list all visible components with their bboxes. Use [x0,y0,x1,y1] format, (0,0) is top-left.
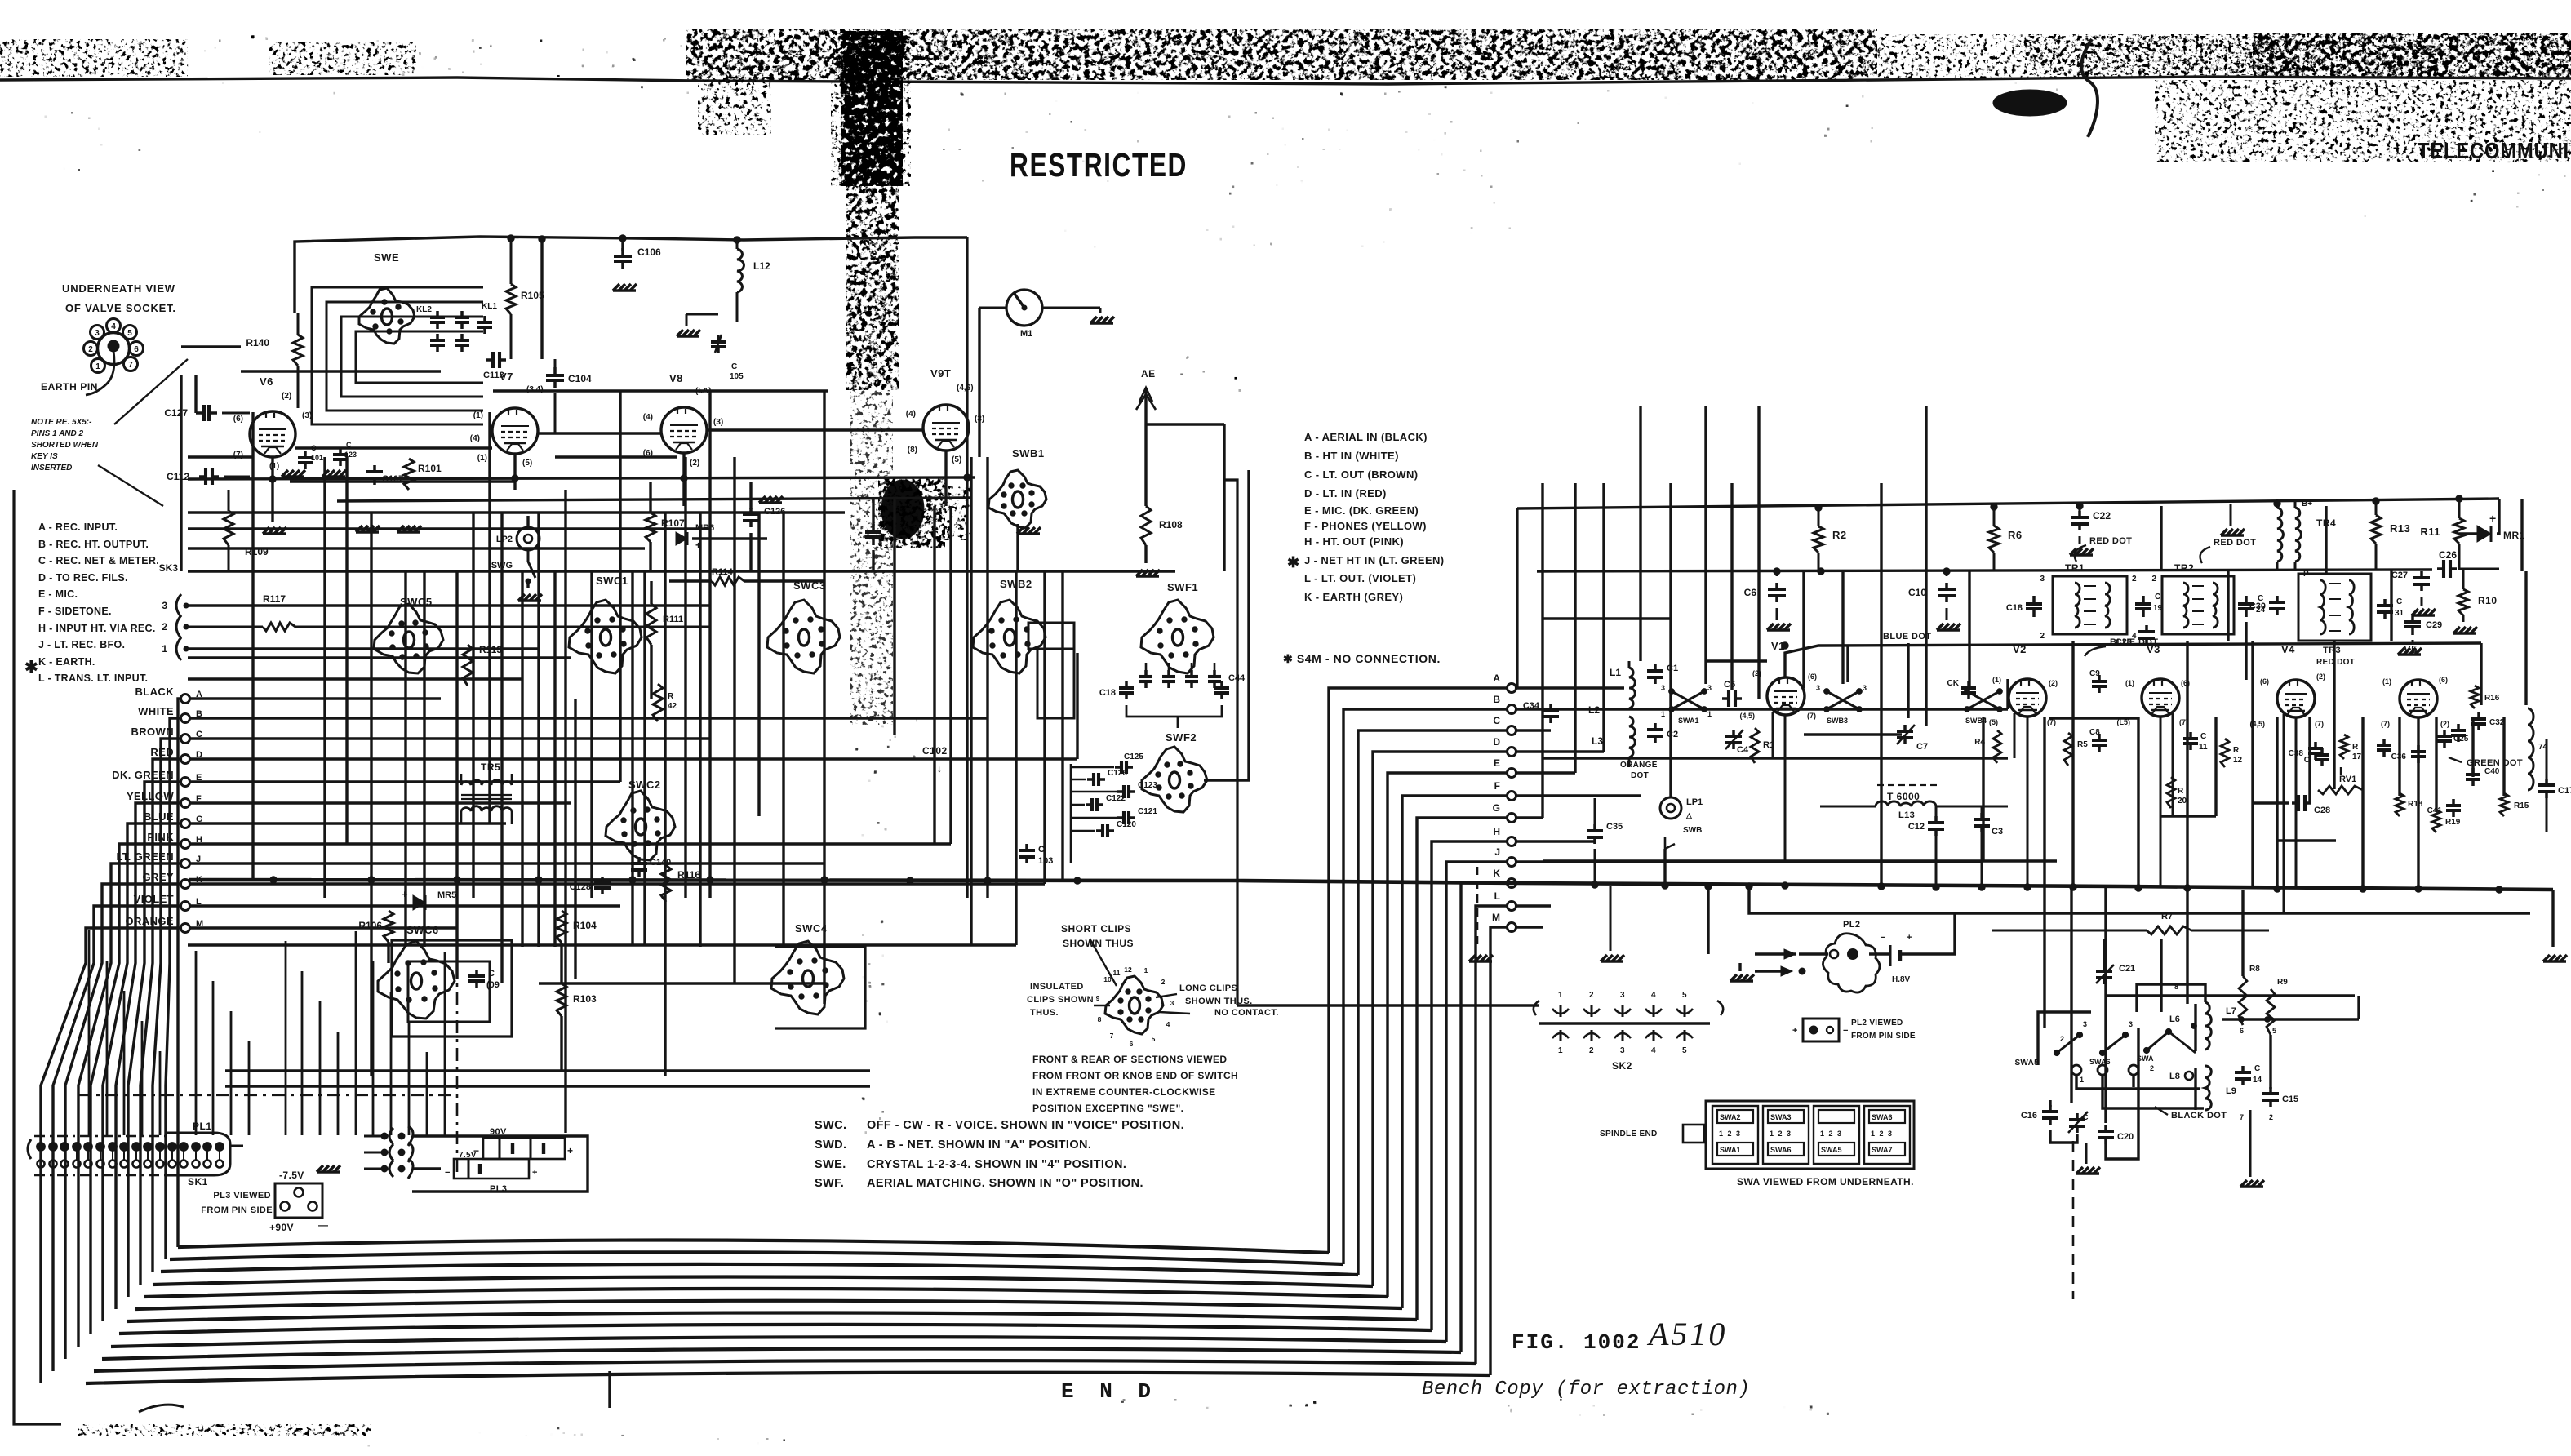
lamp LP2 [517,527,540,550]
right boundary of left block [966,237,968,710]
svg-text:C3: C3 [1992,827,2003,837]
svg-text:+: + [2489,512,2496,525]
svg-text:(1): (1) [477,454,487,463]
verticals left block mesh [455,571,458,979]
svg-text:C: C [2254,1064,2260,1073]
svg-text:−: − [1843,1026,1848,1036]
svg-text:SWA7: SWA7 [1872,1146,1893,1154]
svg-text:C112: C112 [167,471,189,482]
svg-text:B - HT IN (WHITE): B - HT IN (WHITE) [1304,450,1399,462]
svg-text:C32: C32 [2489,718,2505,727]
svg-text:BLUE DOT: BLUE DOT [2110,637,2158,647]
ground swa [2076,1167,2083,1174]
bottom nested bus wires [178,1240,1329,1253]
svg-text:C - REC. NET & METER.: C - REC. NET & METER. [38,555,159,566]
svg-text:C: C [311,444,317,452]
svg-text:TR1: TR1 [2065,562,2085,574]
svg-text:TR5: TR5 [481,761,500,773]
svg-text:C10: C10 [1908,587,1926,598]
svg-text:TR2: TR2 [2174,562,2194,574]
svg-text:C38: C38 [2289,749,2304,758]
svg-text:1: 1 [1558,1046,1563,1055]
loops around SWC4 [775,947,865,1028]
svg-text:CRYSTAL 1-2-3-4. SHOWN IN "4": CRYSTAL 1-2-3-4. SHOWN IN "4" POSITION. [867,1158,1126,1171]
svg-text:(09: (09 [486,980,500,990]
svg-text:E - MIC.: E - MIC. [38,588,78,600]
svg-text:8: 8 [2174,983,2178,991]
svg-text:R: R [2178,787,2184,796]
svg-text:R113: R113 [479,644,502,655]
svg-text:C: C [1038,845,1045,855]
svg-text:SWC6: SWC6 [406,924,439,936]
svg-text:−: − [445,1168,450,1178]
svg-text:FRONT & REAR OF SECTIONS VIEWE: FRONT & REAR OF SECTIONS VIEWED [1032,1054,1227,1065]
svg-text:105: 105 [730,372,744,381]
scan noise centre speckle [694,85,1877,150]
svg-text:C122: C122 [1106,794,1126,803]
svg-text:BROWN: BROWN [131,726,174,738]
svg-text:V9T: V9T [930,367,951,380]
svg-text:SWF1: SWF1 [1167,581,1198,593]
capacitor C7 variable [1903,725,1907,731]
svg-text:2: 2 [88,345,93,354]
dash-dot chassis horizontal [78,1094,457,1096]
svg-text:EARTH PIN: EARTH PIN [41,381,98,393]
svg-text:R117: R117 [263,593,286,605]
svg-text:R2: R2 [1832,529,1847,541]
svg-text:THUS.: THUS. [1030,1008,1059,1018]
svg-text:5: 5 [1152,1035,1156,1043]
svg-text:C: C [2200,732,2206,741]
svg-text:74: 74 [2538,743,2548,752]
svg-text:R: R [2233,746,2240,755]
capacitor C16 [2049,1105,2052,1112]
svg-text:(4,5): (4,5) [1739,712,1755,720]
svg-text:SWC1: SWC1 [596,575,628,587]
svg-text:C127: C127 [164,407,188,419]
svg-text:OF VALVE SOCKET.: OF VALVE SOCKET. [65,302,176,314]
svg-text:SWE: SWE [374,251,399,264]
svg-text:C12: C12 [1908,822,1925,832]
svg-text:BLACK: BLACK [135,686,175,698]
ink blot left block [881,480,924,539]
capacitor C20 [2104,1125,2107,1131]
capacitor C21 [2103,965,2106,971]
svg-text:L1: L1 [1610,667,1621,678]
svg-text:F - PHONES (YELLOW): F - PHONES (YELLOW) [1304,520,1427,532]
svg-text:C40: C40 [2484,767,2500,776]
svg-text:D - TO REC. FILS.: D - TO REC. FILS. [38,572,128,584]
svg-text:H - HT. OUT (PINK): H - HT. OUT (PINK) [1304,535,1404,548]
earth near PL3 [317,1165,323,1172]
svg-text:SHOWN THUS: SHOWN THUS [1063,938,1134,949]
svg-text:E: E [1494,757,1500,769]
svg-text:R6: R6 [2008,529,2023,541]
svg-text:3: 3 [1620,1046,1625,1055]
svg-text:3: 3 [1170,999,1174,1007]
svg-text:(6): (6) [1808,673,1817,681]
svg-text:C17: C17 [2558,786,2571,796]
svg-text:✱ S4M - NO CONNECTION.: ✱ S4M - NO CONNECTION. [1283,652,1441,665]
long rails under valves [188,477,975,479]
right block left boundary [1224,480,1237,1005]
dark blob top right [1993,90,2067,116]
svg-text:MR5: MR5 [437,890,456,900]
svg-text:CLIPS SHOWN: CLIPS SHOWN [1027,995,1094,1005]
capacitor C103 [1025,844,1028,850]
svg-text:2: 2 [2060,1035,2064,1043]
capacitor C28 [2292,801,2298,805]
capacitor CK [1967,681,1970,688]
svg-text:C20: C20 [2117,1132,2134,1142]
svg-text:INSERTED: INSERTED [31,464,72,473]
svg-text:(1): (1) [2125,679,2134,687]
lamp LP1 [1660,797,1681,819]
svg-text:✱: ✱ [24,659,38,677]
svg-text:8: 8 [1098,1015,1102,1023]
resistor R16 [2471,686,2479,708]
svg-text:(5): (5) [1989,718,1998,726]
capacitor C34b [2382,739,2386,745]
svg-text:14: 14 [2253,1076,2262,1085]
svg-text:5: 5 [127,329,132,338]
wire top boundary [295,237,967,313]
svg-text:E N D: E N D [1061,1379,1157,1404]
svg-text:V4: V4 [2281,643,2295,655]
battery HT [1889,945,1892,966]
switch SWA6 [2103,1035,2125,1053]
svg-text:1: 1 [1661,710,1665,718]
svg-text:F - SIDETONE.: F - SIDETONE. [38,606,112,617]
svg-text:A - AERIAL IN (BLACK): A - AERIAL IN (BLACK) [1304,431,1428,443]
svg-text:C: C [2155,593,2160,601]
diode MR6 [676,532,687,545]
svg-text:R: R [2352,743,2359,752]
resistor R114 [712,577,744,585]
svg-text:(1): (1) [1992,676,2001,684]
capacitor C15 [2269,1087,2272,1094]
capacitor C12 [1934,816,1938,823]
svg-text:SWA5: SWA5 [1821,1146,1842,1154]
svg-text:7: 7 [2240,1113,2244,1121]
wire swf2 right [1204,470,1249,780]
svg-text:FROM PIN SIDE: FROM PIN SIDE [1851,1032,1916,1041]
capacitor C126 [749,508,753,514]
svg-text:C28: C28 [2314,806,2330,815]
capacitor C24 right of TR2 [2245,596,2248,604]
svg-text:C18: C18 [1099,688,1116,698]
PL2 feed drop [1707,890,1709,954]
svg-text:(2): (2) [2049,679,2058,687]
svg-text:1: 1 [162,643,167,655]
resistor R101 [404,459,414,490]
svg-text:C104: C104 [568,373,592,384]
svg-text:11: 11 [1113,969,1121,977]
svg-text:(5): (5) [952,455,961,464]
capacitor C23 [2145,625,2148,632]
svg-text:SPINDLE END: SPINDLE END [1600,1130,1658,1139]
svg-text:3: 3 [2083,1020,2087,1028]
heavy earth bus K row left block [189,880,1240,881]
svg-text:+: + [1792,1026,1797,1036]
svg-text:K: K [1493,868,1500,879]
svg-text:2: 2 [1161,978,1166,986]
svg-text:SWF2: SWF2 [1166,731,1197,744]
svg-text:J - LT. REC. BFO.: J - LT. REC. BFO. [38,639,125,650]
capacitor C22 with earth [2078,511,2081,517]
resistor R2 [1814,526,1823,553]
switch SWB4 cross [1967,691,2000,709]
svg-text:(6): (6) [233,415,243,424]
resistor R106 [384,911,393,942]
svg-text:RESTRICTED: RESTRICTED [1010,146,1188,184]
svg-text:1: 1 [2080,1076,2084,1084]
right block bottom boundary [1237,1004,1539,1006]
right mid rails [1543,757,2008,759]
svg-text:+: + [567,1145,573,1156]
svg-text:3: 3 [1816,684,1820,692]
capacitor C4 variable [1732,730,1735,736]
wires right of terminals [1516,686,1624,689]
svg-text:SK3: SK3 [159,562,179,574]
diode MR5 [413,895,425,910]
svg-text:A - REC. INPUT.: A - REC. INPUT. [38,522,118,533]
svg-text:△: △ [1685,811,1693,819]
svg-text:L6: L6 [2169,1014,2180,1024]
svg-text:SHORTED WHEN: SHORTED WHEN [31,441,99,450]
svg-text:(7): (7) [2315,720,2324,728]
resistor R142 [653,684,663,721]
svg-text:V1: V1 [1771,640,1785,652]
svg-text:(1): (1) [473,411,483,420]
svg-text:SWB: SWB [1683,826,1702,835]
dash-dot chassis vertical [456,937,459,1174]
left block extra verticals 3 [553,571,556,947]
right block top boundary [1517,499,2499,508]
resistor R111 [646,604,656,645]
svg-text:R18: R18 [2408,800,2423,809]
capacitor C27 with earth [2420,571,2423,578]
loops around SWC6 [392,940,512,1037]
wires swa bottom [2049,1100,2051,1107]
svg-text:C7: C7 [1916,742,1928,752]
capacitor C109 [475,970,478,976]
capacitor C128 [601,877,604,883]
svg-text:C41: C41 [2427,806,2443,815]
svg-text:3: 3 [1661,684,1665,692]
svg-text:(1): (1) [269,462,279,471]
svg-text:1: 1 [1144,966,1148,974]
svg-text:3: 3 [162,600,167,611]
svg-text:2: 2 [2151,575,2156,584]
svg-text:C128: C128 [570,882,591,892]
svg-text:F: F [1494,780,1500,792]
outer loop far left vertical [14,490,61,1424]
svg-text:C: C [2083,1113,2089,1121]
svg-text:M1: M1 [1020,329,1032,339]
svg-text:C4: C4 [1737,745,1749,755]
svg-text:K - EARTH (GREY): K - EARTH (GREY) [1304,591,1403,603]
dashed vertical swa [2072,1141,2075,1299]
svg-text:C126: C126 [1108,769,1127,778]
svg-text:3: 3 [2040,575,2045,584]
capacitor C32 [2477,712,2480,719]
capacitor C19 right of TR1 [2142,596,2145,604]
resistor R108 [1141,506,1151,545]
capacitor C20b R20 [2167,777,2175,808]
svg-text:R10: R10 [2478,595,2498,606]
svg-text:9: 9 [1096,994,1100,1002]
bottom-left stray marks [78,1424,371,1436]
svg-text:R8: R8 [2249,965,2260,974]
svg-text:C30: C30 [2249,601,2266,611]
svg-text:UNDERNEATH VIEW: UNDERNEATH VIEW [62,282,175,295]
wire SK3 rows [186,604,710,606]
svg-text:5: 5 [2272,1027,2276,1035]
svg-text:C36: C36 [2391,752,2407,761]
capacitor C17 right edge [2545,779,2548,785]
dashed drop below J terminal [1476,867,1479,947]
svg-text:PINS 1 AND 2: PINS 1 AND 2 [31,429,84,438]
svg-text:LP2: LP2 [496,535,513,544]
rail below K bus right block [1749,890,2530,913]
svg-text:(4,6): (4,6) [957,384,974,393]
svg-text:ORANGE: ORANGE [1620,761,1658,770]
scan noise under band left [0,96,457,211]
svg-text:1 2 3: 1 2 3 [1719,1130,1742,1138]
svg-text:↓: ↓ [937,763,942,775]
svg-text:(7): (7) [1807,712,1816,720]
meter M1 [1006,290,1042,326]
capacitor C40 [2471,768,2475,775]
resistor R8 [2239,976,2247,1025]
wires SWA coils [2137,984,2205,1012]
resistor R107 [646,513,655,542]
svg-text:(2): (2) [2440,720,2449,728]
vertical feeds to SWA cluster [2043,886,2045,1028]
capacitor C2 [1654,723,1657,730]
wire right edge left block [1146,423,1224,425]
svg-text:R13: R13 [2390,522,2410,535]
svg-text:C123: C123 [1138,781,1157,790]
svg-text:C: C [2304,756,2310,765]
svg-text:R108: R108 [1159,519,1183,530]
svg-text:DOT: DOT [1631,771,1649,780]
svg-text:L3: L3 [1592,735,1603,747]
svg-text:C106: C106 [637,246,661,258]
svg-text:V8: V8 [669,372,683,384]
svg-text:SWB3: SWB3 [1827,717,1848,725]
capacitor C1 [1654,664,1657,671]
svg-text:BLUE DOT: BLUE DOT [1883,632,1931,641]
svg-text:C102: C102 [922,745,948,757]
svg-text:L8: L8 [2169,1072,2180,1081]
svg-text:R4: R4 [1974,738,1985,747]
svg-text:—: — [318,1219,328,1231]
ground left of PL2 [1730,974,1737,981]
svg-text:(2): (2) [690,459,699,468]
svg-text:TR3: TR3 [2323,646,2341,655]
svg-text:R7: R7 [2161,912,2173,921]
svg-text:B+: B+ [2302,499,2312,508]
capacitor C38 [2314,742,2317,748]
svg-text:PL2 VIEWED: PL2 VIEWED [1851,1019,1903,1028]
svg-text:4: 4 [111,322,116,331]
rail above K bus right block [1543,859,2057,862]
PL2 viewed box [1803,1019,1839,1041]
capacitor C29 with earth [2411,614,2414,622]
resistor R10 [2458,589,2468,615]
switch SWB3 cross [1827,691,1859,709]
svg-text:C: C [731,362,737,371]
switch SWA1 cross [1672,691,1704,709]
wire heavy row y1158 [188,943,1016,946]
svg-text:R103: R103 [573,993,597,1005]
blue dot rail [1785,643,2481,677]
svg-text:(4): (4) [643,413,653,422]
svg-text:C26: C26 [2439,549,2457,561]
svg-text:KEY IS: KEY IS [31,452,58,461]
svg-text:C: C [1493,715,1500,726]
potentiometer RV1 [2318,786,2363,794]
resistor R12 [2221,739,2229,767]
svg-text:C - LT. OUT (BROWN): C - LT. OUT (BROWN) [1304,468,1419,481]
svg-text:GREEN DOT: GREEN DOT [2467,758,2523,768]
svg-text:C22: C22 [2093,510,2111,522]
svg-text:12: 12 [1124,965,1132,974]
loops right of SWB2 [1028,623,1074,649]
SWE switch nested loops [312,287,483,424]
svg-text:SWD.: SWD. [815,1139,846,1152]
svg-text:SWF.: SWF. [815,1177,844,1190]
svg-text:SWA VIEWED FROM UNDERNEATH.: SWA VIEWED FROM UNDERNEATH. [1737,1176,1914,1187]
svg-text:(8): (8) [908,446,917,455]
svg-text:J: J [1494,846,1500,858]
wire note pointer [98,465,163,506]
left block extra mesh wires [241,370,441,372]
svg-text:C: C [2396,597,2402,606]
svg-text:5: 5 [1682,1046,1687,1055]
battery wires [412,1136,588,1192]
svg-text:D - LT. IN (RED): D - LT. IN (RED) [1304,487,1387,499]
svg-text:SWA6: SWA6 [2089,1058,2111,1066]
squiggle mark top right [2081,39,2098,137]
svg-text:R19: R19 [2445,818,2461,827]
IF transformer TR3 [2298,574,2371,641]
capacitor C41 [2452,799,2455,806]
svg-text:1 2 3: 1 2 3 [1770,1130,1792,1138]
grounds under valve row [282,470,288,477]
svg-text:(4): (4) [906,410,916,419]
svg-text:+: + [1907,933,1912,943]
svg-text:(6): (6) [2260,677,2269,686]
svg-text:7: 7 [1110,1032,1114,1040]
ground right swa [2240,1180,2247,1187]
resistors under V2 [1993,730,2001,763]
svg-text:(5): (5) [522,459,532,468]
svg-text:4: 4 [1651,1046,1656,1055]
svg-text:(7): (7) [2381,720,2390,728]
valve stems to bus [1784,715,1787,861]
svg-text:SK1: SK1 [188,1176,208,1187]
svg-text:C21: C21 [2119,964,2135,974]
svg-text:KL1: KL1 [482,302,497,311]
svg-text:V6: V6 [260,375,273,388]
top band lower tongues [698,77,771,135]
svg-text:+: + [532,1168,537,1178]
svg-text:DK. GREEN: DK. GREEN [112,769,174,781]
svg-text:3: 3 [1620,991,1625,1000]
